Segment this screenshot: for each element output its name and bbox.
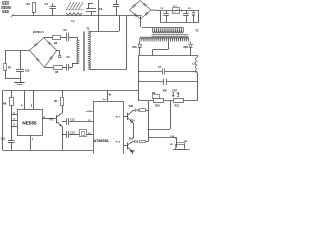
svg-text:R15: R15 [129,137,134,140]
svg-text:C12: C12 [70,120,75,122]
svg-text:C2: C2 [160,8,164,10]
svg-text:ZR: ZR [8,66,11,69]
svg-text:VT1: VT1 [49,119,54,122]
svg-text:R1: R1 [27,2,31,6]
svg-text:VD: VD [170,144,173,146]
svg-text:P1.1: P1.1 [116,116,121,118]
svg-text:R7: R7 [54,99,58,103]
svg-text:VD7: VD7 [172,89,177,92]
svg-text:XW: XW [163,89,168,92]
svg-text:1: 1 [32,138,34,141]
svg-text:T1: T1 [87,27,91,30]
svg-text:C9: C9 [67,56,71,59]
svg-text:40: 40 [108,93,111,96]
svg-text:AT89S51: AT89S51 [94,139,109,143]
svg-text:R6: R6 [3,101,7,105]
svg-text:C2: C2 [99,8,103,11]
svg-text:Vcc: Vcc [103,99,107,101]
svg-text:8: 8 [31,104,33,107]
svg-text:R3: R3 [54,42,58,45]
svg-text:4: 4 [21,104,23,107]
svg-text:T2: T2 [196,30,200,33]
svg-text:C13: C13 [70,133,75,135]
svg-text:P1.0: P1.0 [116,141,121,143]
svg-text:NE555: NE555 [22,120,37,125]
svg-text:C1: C1 [45,2,49,6]
svg-text:L1: L1 [72,19,76,23]
svg-text:VT5: VT5 [130,150,135,153]
svg-text:R4: R4 [55,71,59,74]
svg-text:VD6: VD6 [183,46,188,49]
svg-text:MP: MP [184,141,188,143]
svg-text:C7: C7 [158,66,162,69]
svg-text:C10: C10 [25,70,30,73]
svg-text:R10: R10 [155,104,160,107]
svg-text:VT4: VT4 [130,119,135,122]
svg-text:2CP91×4: 2CP91×4 [33,31,44,34]
svg-text:C6: C6 [64,29,68,32]
svg-text:R14: R14 [129,105,134,108]
svg-text:VD5: VD5 [132,46,137,49]
svg-text:C3: C3 [188,8,192,10]
svg-text:C11: C11 [1,137,6,140]
svg-text:R11: R11 [175,104,180,107]
